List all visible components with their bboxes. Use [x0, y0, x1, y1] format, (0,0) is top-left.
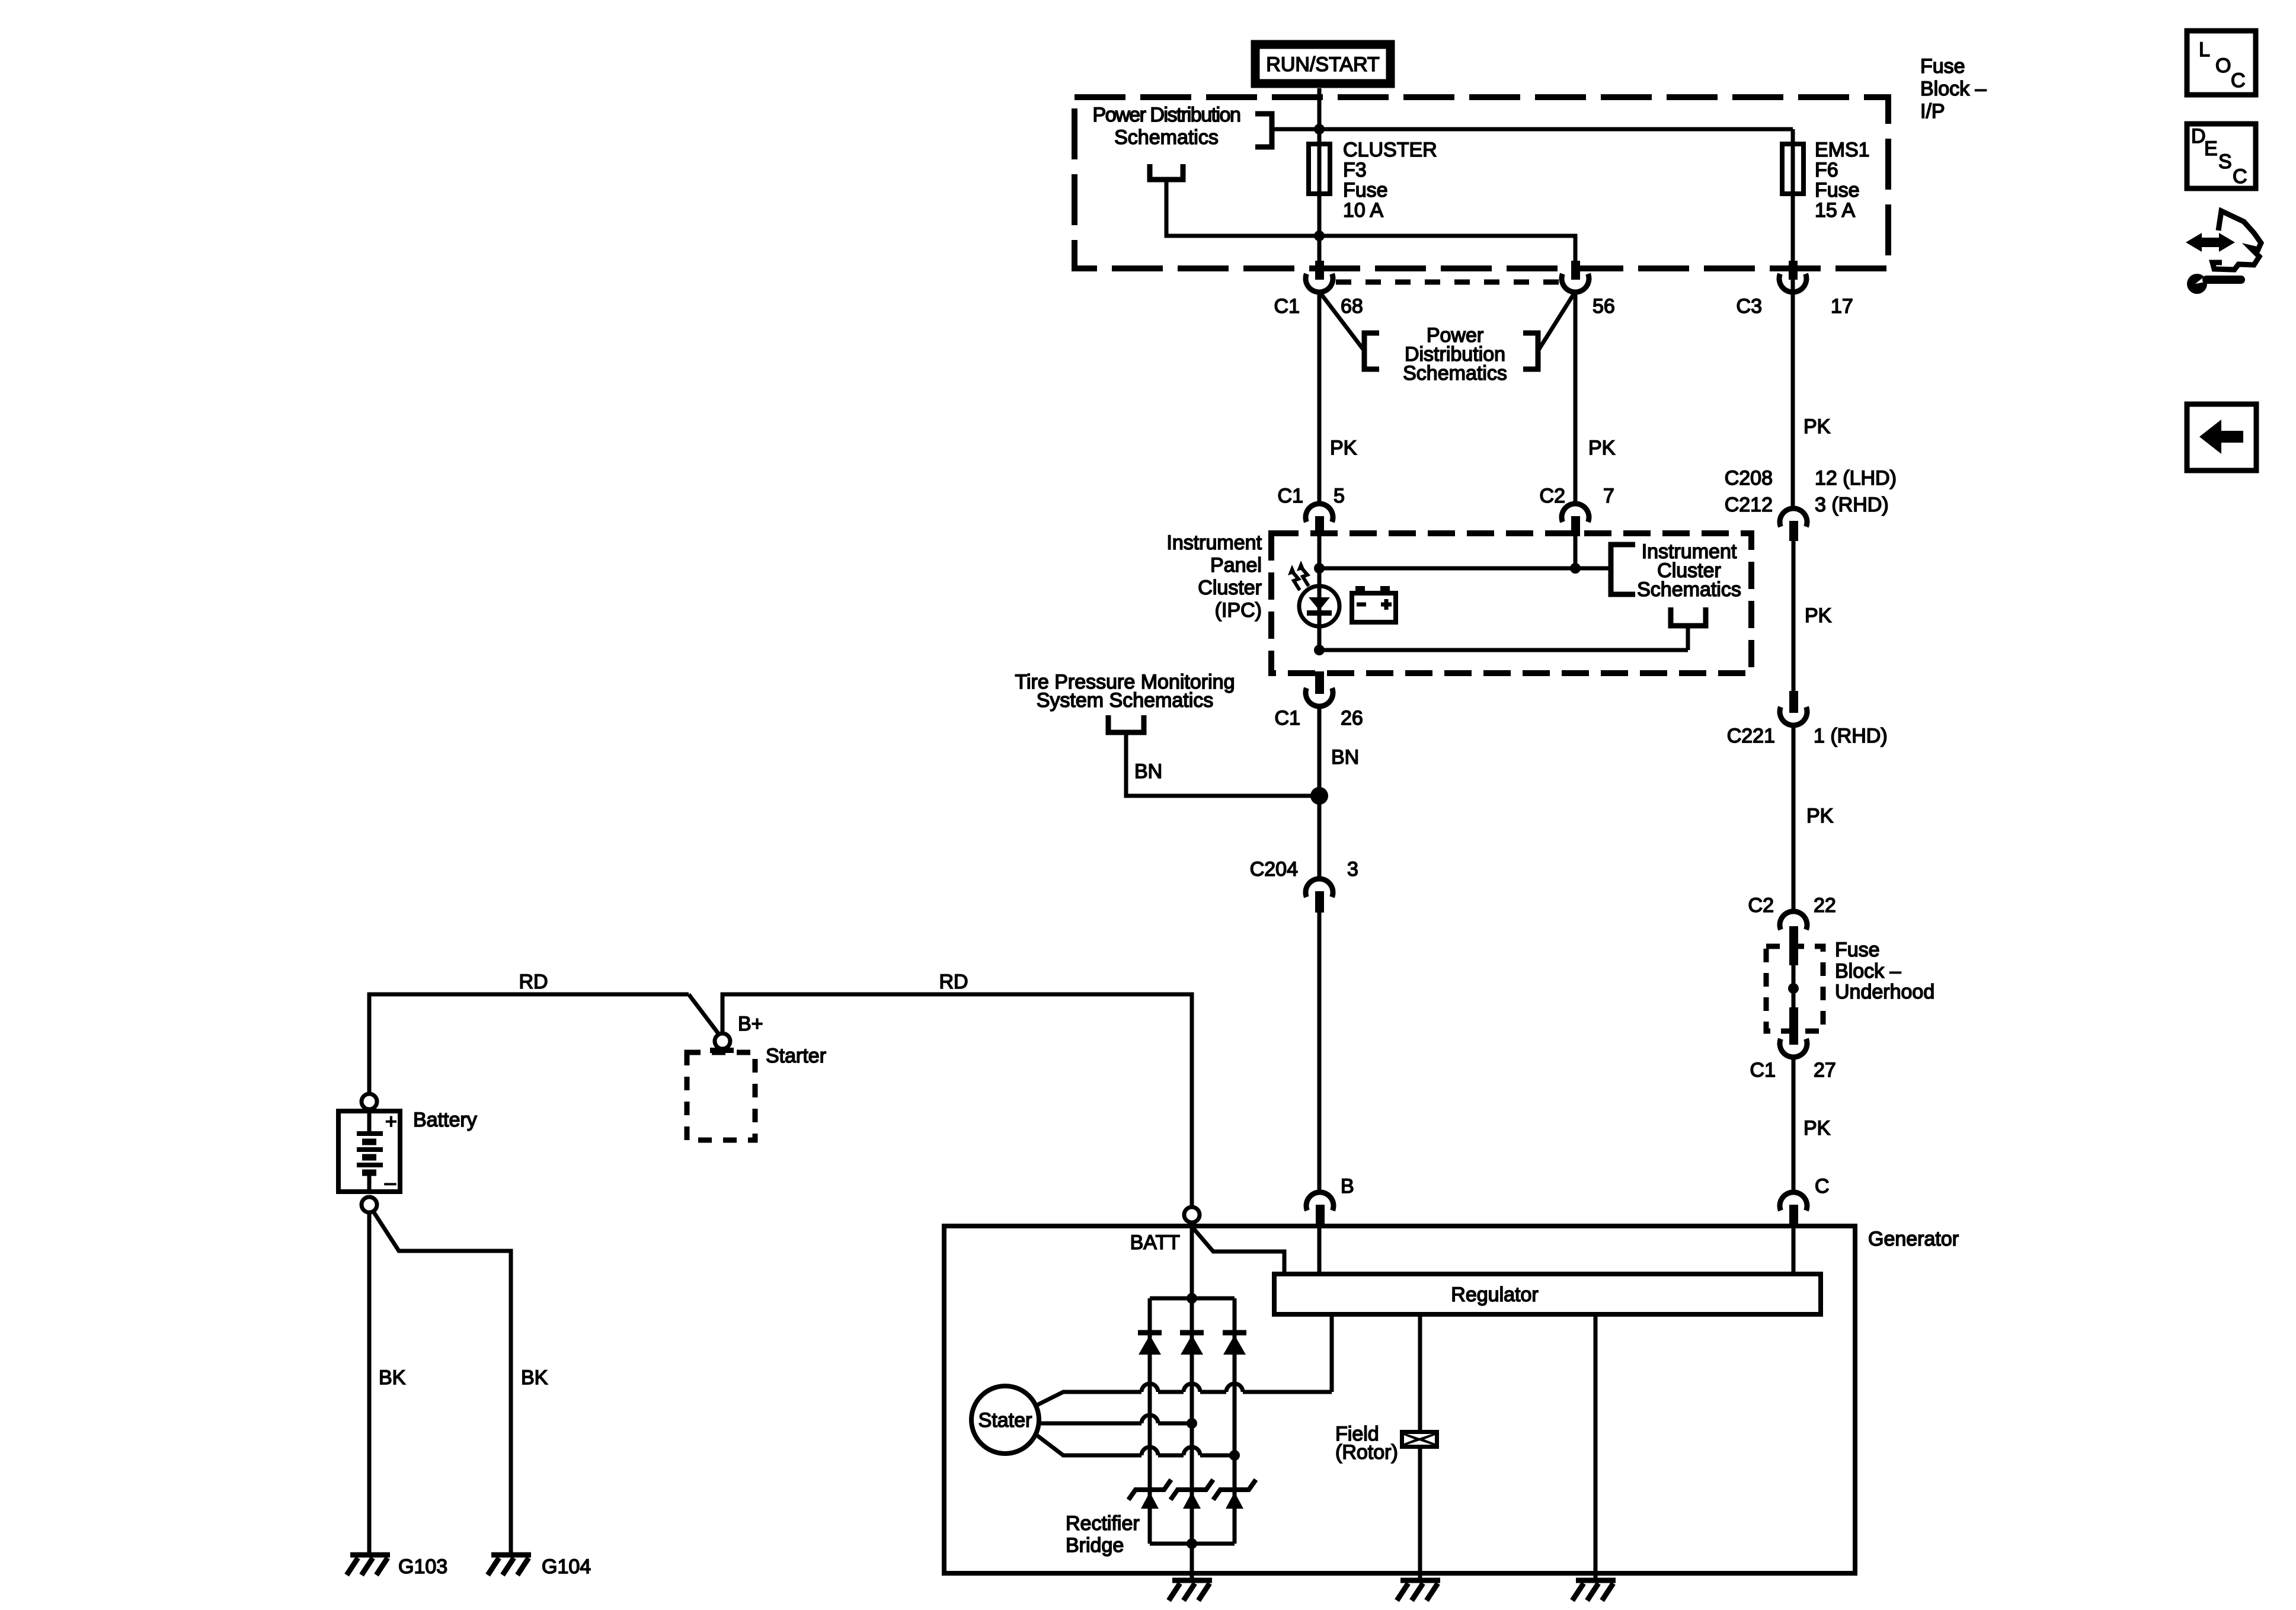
stator phase wire 1 [1036, 1392, 1332, 1406]
svg-text:C: C [2231, 69, 2246, 92]
svg-text:10 A: 10 A [1343, 199, 1383, 222]
svg-text:G103: G103 [398, 1555, 447, 1578]
junction node at F3 wire [1314, 124, 1325, 135]
svg-text:Panel: Panel [1210, 554, 1262, 577]
crossover hump phase1 x2011 [1184, 1384, 1200, 1392]
svg-text:Generator: Generator [1868, 1228, 1959, 1250]
junction node phase2 [1187, 1418, 1197, 1429]
svg-text:Fuse: Fuse [1920, 55, 1965, 78]
wire BATT stud down to rectifier bridge [1190, 1222, 1194, 1298]
svg-text:F6: F6 [1815, 159, 1838, 181]
diode D4 avalanche [1128, 1480, 1171, 1509]
svg-text:Schematics: Schematics [1114, 126, 1219, 149]
svg-text:Schematics: Schematics [1403, 362, 1507, 385]
crossover hump phase3 x1940 [1141, 1447, 1158, 1455]
rectifier bridge bottom rail [1150, 1542, 1235, 1546]
svg-text:Battery: Battery [413, 1109, 477, 1131]
label Fuse Block Underhood [1835, 939, 1934, 1003]
label Rectifier Bridge [1066, 1512, 1140, 1557]
svg-text:Rectifier: Rectifier [1066, 1512, 1140, 1535]
junction node lower distribution [1314, 231, 1325, 241]
svg-text:C1: C1 [1278, 485, 1303, 507]
svg-text:BK: BK [379, 1366, 406, 1389]
svg-text:Block –: Block – [1920, 78, 1987, 100]
svg-text:68: 68 [1341, 295, 1363, 318]
label Fuse Block I/P [1920, 55, 1987, 123]
wire from bracket down to IPC bottom wire [1686, 626, 1690, 650]
ground G104 [488, 1555, 591, 1578]
junction node LED top [1314, 563, 1325, 574]
wire C1/5 into IPC [1318, 531, 1322, 586]
generator connector C [1780, 1175, 1830, 1226]
stator phase wire 3 [1036, 1435, 1235, 1455]
diode D3 [1223, 1333, 1246, 1355]
connector C1 pin 26 [1275, 671, 1363, 729]
icon LOC box [2187, 31, 2256, 95]
reference Instrument Cluster Schematics [1611, 540, 1741, 626]
indicator LED telltale [1288, 561, 1339, 650]
field rotor symbol [1400, 1430, 1439, 1449]
rectifier bridge top rail [1150, 1297, 1235, 1301]
wire diagonal 56 to right bracket [1538, 292, 1575, 351]
svg-text:RD: RD [519, 971, 548, 993]
connector C3 pin 17 [1737, 261, 1853, 318]
wire lower distribution from bracket to 56 branch [1166, 180, 1575, 263]
svg-text:Instrument: Instrument [1166, 532, 1262, 554]
junction node phase3 [1229, 1450, 1240, 1461]
svg-text:System Schematics: System Schematics [1037, 689, 1214, 712]
wire regulator left leg to stator sense line [1330, 1315, 1334, 1392]
svg-text:26: 26 [1341, 707, 1363, 729]
wire PK C221 to C2/22 [1793, 725, 1834, 912]
label Instrument Panel Cluster (IPC) [1166, 532, 1262, 622]
svg-text:22: 22 [1814, 894, 1836, 917]
wire fuse F6 to connector C3/17 [1791, 196, 1795, 264]
svg-text:Schematics: Schematics [1637, 578, 1741, 601]
wire BN from TPMS bracket [1126, 732, 1319, 796]
crossover hump phase1 x1940 [1141, 1384, 1158, 1392]
svg-text:PK: PK [1805, 604, 1832, 627]
svg-text:Underhood: Underhood [1835, 981, 1934, 1003]
svg-text:BK: BK [521, 1366, 548, 1389]
svg-text:PK: PK [1803, 1117, 1831, 1140]
svg-text:E: E [2204, 137, 2218, 160]
BATT terminal stud [1184, 1207, 1200, 1222]
svg-text:Fuse: Fuse [1835, 939, 1880, 961]
label Field (Rotor) [1335, 1423, 1398, 1464]
svg-text:Power Distribution: Power Distribution [1093, 104, 1240, 126]
battery [338, 1109, 400, 1194]
stator [971, 1386, 1039, 1454]
svg-text:C3: C3 [1737, 295, 1762, 318]
icon DESC box [2187, 124, 2256, 188]
wire PK 56 to C2/7 [1575, 292, 1616, 504]
wire RD starter B+ to generator BATT [722, 971, 1192, 1208]
wire PK C1/68 to C1/5 [1319, 292, 1357, 504]
wire PK C3/17 to C208 [1793, 264, 1831, 508]
svg-text:C212: C212 [1725, 494, 1773, 516]
wire B into regulator [1318, 1226, 1322, 1275]
svg-text:–: – [385, 1172, 396, 1194]
connector C1 pin 68 [1274, 261, 1363, 318]
svg-text:C: C [1815, 1175, 1830, 1198]
ground field rotor [1397, 1573, 1440, 1601]
connector pin 56 [1562, 261, 1615, 318]
svg-text:L: L [2199, 39, 2210, 61]
wire BK battery to G103 [369, 1212, 406, 1553]
svg-text:CLUSTER: CLUSTER [1343, 139, 1437, 161]
svg-text:C221: C221 [1727, 725, 1775, 747]
svg-text:RUN/START: RUN/START [1266, 53, 1379, 76]
svg-text:C1: C1 [1274, 295, 1300, 318]
svg-text:G104: G104 [542, 1555, 591, 1578]
svg-text:C2: C2 [1748, 894, 1774, 917]
icon back arrow box [2187, 404, 2256, 470]
IPC internal bottom wire [1319, 648, 1688, 652]
svg-text:F3: F3 [1343, 159, 1367, 181]
wire from bracket to EMS1 branch [1272, 127, 1793, 132]
svg-text:12 (LHD): 12 (LHD) [1815, 467, 1897, 489]
junction node C2 wire [1570, 563, 1581, 574]
connector C2 pin 7 [1540, 485, 1614, 536]
connector C221 1(RHD) [1727, 691, 1888, 747]
instrument panel cluster dashed box [1271, 533, 1751, 673]
wire field rotor leg [1418, 1315, 1422, 1573]
wire BK battery to G104 [373, 1211, 548, 1553]
svg-text:B+: B+ [738, 1013, 763, 1035]
wire BN C204 to generator B [1318, 913, 1322, 1193]
ground regulator right leg [1572, 1573, 1616, 1601]
svg-text:(IPC): (IPC) [1215, 599, 1262, 622]
svg-text:B: B [1341, 1175, 1354, 1198]
diode D1 [1138, 1333, 1162, 1355]
svg-text:PK: PK [1806, 805, 1834, 827]
svg-text:C208: C208 [1725, 467, 1773, 489]
svg-text:Starter: Starter [766, 1045, 826, 1067]
svg-text:I/P: I/P [1920, 100, 1945, 123]
wire C into regulator [1792, 1226, 1796, 1275]
connector dashed tie line C1 [1336, 280, 1559, 285]
svg-text:3 (RHD): 3 (RHD) [1815, 494, 1889, 516]
junction node bridge bottom [1187, 1538, 1197, 1549]
wire PK C1/27 to generator C [1793, 1057, 1831, 1193]
wire inside fuse block underhood [1792, 948, 1796, 1007]
stator phase wire 2 [1039, 1422, 1192, 1426]
connector C204 pin 3 [1250, 858, 1358, 913]
svg-text:C1: C1 [1275, 707, 1300, 729]
battery top terminal [362, 1094, 377, 1109]
connector C208 C212 12(LHD) 3(RHD) [1725, 467, 1897, 541]
wire BN C1/26 to C204 [1319, 706, 1359, 879]
svg-text:Fuse: Fuse [1815, 179, 1860, 201]
svg-text:EMS1: EMS1 [1815, 139, 1870, 161]
fuse block underhood dashed box [1766, 946, 1823, 1031]
wire C2/7 into IPC [1574, 531, 1578, 568]
connector C1 pin 27 [1750, 1007, 1836, 1081]
svg-text:1 (RHD): 1 (RHD) [1814, 725, 1888, 747]
fuse F3 [1309, 142, 1330, 196]
wire diagonal RD to B+ stud [689, 994, 720, 1036]
icon car with arrow and wrench [2186, 211, 2261, 294]
svg-text:(Rotor): (Rotor) [1335, 1441, 1398, 1464]
regulator box [1274, 1274, 1821, 1314]
svg-text:C204: C204 [1250, 858, 1298, 881]
svg-text:Fuse: Fuse [1343, 179, 1388, 201]
rectifier bridge right wire [1233, 1298, 1237, 1544]
svg-text:Regulator: Regulator [1451, 1283, 1538, 1306]
svg-text:Cluster: Cluster [1198, 577, 1262, 599]
ground generator middle [1169, 1573, 1212, 1601]
svg-text:56: 56 [1593, 295, 1615, 318]
connector C1 pin 5 [1278, 485, 1345, 536]
svg-text:BN: BN [1134, 760, 1162, 783]
fuse F6 [1782, 129, 1803, 196]
wire regulator right leg [1594, 1315, 1598, 1573]
diode D5 avalanche [1171, 1480, 1213, 1509]
svg-text:27: 27 [1814, 1059, 1836, 1081]
wire diagonal C1/68 to left bracket [1319, 292, 1364, 351]
junction node bridge top [1187, 1293, 1197, 1304]
svg-text:7: 7 [1603, 485, 1614, 507]
connector C2 pin 22 [1748, 894, 1836, 965]
crossover hump phase2 x1940 [1141, 1415, 1158, 1423]
svg-text:17: 17 [1831, 295, 1853, 318]
ground G103 [347, 1555, 447, 1578]
battery telltale icon [1352, 586, 1396, 622]
svg-text:Bridge: Bridge [1066, 1534, 1124, 1557]
svg-text:PK: PK [1588, 437, 1616, 459]
reference Power Distribution Schematics (middle) [1364, 324, 1538, 385]
svg-text:C2: C2 [1540, 485, 1565, 507]
svg-text:C: C [2233, 165, 2247, 188]
svg-text:Stater: Stater [978, 1409, 1032, 1432]
junction node fuse block underhood [1788, 983, 1799, 994]
label fuse F3 CLUSTER 10A [1343, 139, 1437, 222]
IPC internal top wire [1319, 566, 1611, 571]
label fuse F6 EMS1 15A [1815, 139, 1870, 222]
reference Tire Pressure Monitoring System Schematics [1015, 671, 1235, 732]
svg-text:C1: C1 [1750, 1059, 1776, 1081]
svg-text:RD: RD [939, 971, 968, 993]
svg-text:PK: PK [1330, 437, 1357, 459]
rectifier bridge middle wire [1190, 1298, 1194, 1573]
wire fuse F3 to connector C1/68 [1318, 196, 1322, 263]
svg-text:D: D [2191, 125, 2206, 148]
generator connector B [1306, 1175, 1354, 1226]
svg-text:S: S [2218, 151, 2232, 173]
svg-text:BATT: BATT [1130, 1231, 1180, 1254]
starter dashed box [687, 1048, 755, 1140]
crossover hump phase1 x2083 [1226, 1384, 1243, 1392]
svg-text:BN: BN [1331, 746, 1359, 769]
diode D6 avalanche [1213, 1480, 1256, 1509]
wire PK C208 to C221 [1793, 541, 1832, 693]
svg-text:O: O [2215, 55, 2231, 77]
battery bottom terminal [362, 1197, 377, 1212]
wire RUN/START down to fuse F3 [1318, 88, 1322, 142]
svg-text:15 A: 15 A [1815, 199, 1855, 222]
reference Power Distribution Schematics (top left) [1093, 104, 1272, 180]
svg-text:Block –: Block – [1835, 960, 1901, 982]
diode D2 [1180, 1333, 1204, 1355]
fuse block I/P dashed box [1075, 97, 1888, 268]
svg-text:+: + [385, 1110, 397, 1133]
junction node BN [1310, 787, 1328, 805]
crossover hump phase3 x2011 [1184, 1447, 1200, 1455]
starter B+ stud [715, 1033, 730, 1049]
wire RD battery to starter B+ [369, 971, 689, 1094]
ignition switch RUN/START box [1255, 44, 1390, 84]
svg-text:5: 5 [1334, 485, 1345, 507]
svg-text:PK: PK [1803, 415, 1831, 438]
wire BATT lead to regulator [1192, 1227, 1284, 1275]
svg-text:3: 3 [1347, 858, 1358, 881]
rectifier bridge left wire [1148, 1298, 1152, 1544]
generator box [944, 1226, 1855, 1573]
junction node LED bottom [1314, 645, 1325, 655]
